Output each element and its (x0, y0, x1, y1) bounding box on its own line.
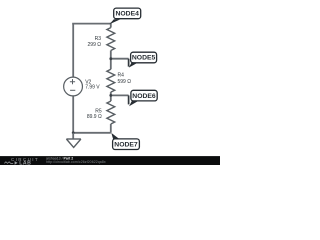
svg-text:7.99 V: 7.99 V (85, 84, 100, 90)
node NODE5 flag (129, 52, 157, 67)
wire: NODE5 branch (111, 58, 129, 60)
svg-text:NODE7: NODE7 (114, 141, 138, 148)
node B junction dot (NODE6) (109, 94, 112, 97)
svg-text:299 Ω: 299 Ω (88, 42, 102, 48)
resistor R3 (107, 28, 115, 51)
node A junction dot (NODE5) (109, 57, 112, 60)
CircuitLab logo (4, 157, 39, 167)
wire: chain vertical top lead (110, 23, 112, 28)
svg-text:LAB: LAB (19, 161, 31, 165)
svg-text:R4: R4 (118, 73, 125, 79)
svg-text:NODE5: NODE5 (132, 55, 156, 62)
wire: left vertical below V2 (72, 96, 74, 133)
wire: R4 to node6 junction (110, 92, 112, 95)
node C junction dot (ground net) (72, 131, 75, 134)
resistor R4 (107, 69, 115, 92)
node NODE7 flag (111, 133, 139, 150)
wire: left vertical above V2 (72, 24, 74, 78)
node NODE4 flag (109, 8, 140, 24)
wire: R3 to node5 junction (110, 51, 112, 59)
wire: R5 to bottom corner (110, 124, 112, 133)
wire: node5 junction to R4 (110, 59, 112, 70)
svg-text:http://circuitlab.com/c26zf206: http://circuitlab.com/c26zf20622qa8x (46, 160, 106, 164)
wire: top horizontal from V2 branch to resistor chain (72, 23, 111, 25)
footer bar (0, 156, 220, 165)
wire: bottom horizontal (73, 132, 111, 134)
resistor R5 (107, 101, 115, 124)
voltage source V2 (64, 77, 83, 96)
svg-text:NODE4: NODE4 (115, 11, 139, 18)
svg-text:89.9 Ω: 89.9 Ω (87, 114, 102, 120)
svg-text:NODE6: NODE6 (132, 93, 156, 100)
wire: node6 junction to R5 (110, 95, 112, 101)
ground (66, 133, 81, 148)
node NODE6 flag (129, 90, 157, 106)
svg-text:599 Ω: 599 Ω (118, 79, 132, 85)
wire: NODE6 branch (111, 94, 129, 96)
